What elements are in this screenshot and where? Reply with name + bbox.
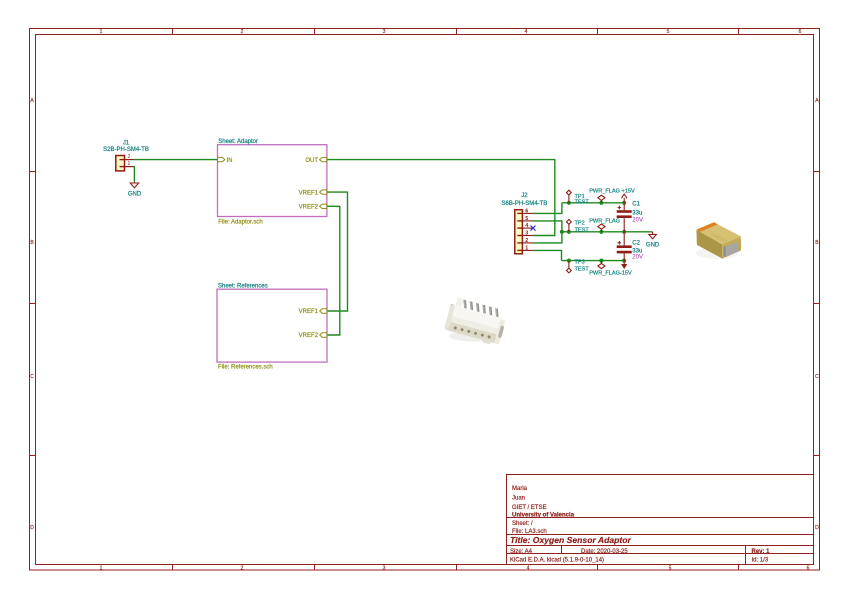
svg-text:KiCad E.D.A. kicad (5.1.9-0-1: KiCad E.D.A. kicad (5.1.9-0-10_14) — [510, 557, 604, 563]
svg-text:Id: 1/3: Id: 1/3 — [752, 557, 769, 563]
svg-text:20V: 20V — [632, 217, 643, 223]
svg-text:4: 4 — [525, 29, 528, 35]
svg-text:GND: GND — [646, 242, 660, 248]
svg-text:C: C — [815, 374, 819, 380]
svg-text:VREF2: VREF2 — [299, 205, 319, 211]
svg-text:2: 2 — [128, 154, 131, 160]
svg-text:TP2: TP2 — [575, 221, 585, 227]
svg-text:GND: GND — [128, 192, 142, 198]
svg-text:6: 6 — [799, 29, 802, 35]
svg-text:C1: C1 — [632, 202, 640, 208]
svg-text:PWR_FLAG-15V: PWR_FLAG-15V — [589, 271, 632, 277]
svg-text:B: B — [815, 240, 819, 246]
svg-text:Size: A4: Size: A4 — [510, 549, 533, 555]
svg-text:D: D — [30, 525, 34, 531]
svg-text:1: 1 — [128, 161, 131, 167]
svg-text:33u: 33u — [632, 211, 642, 217]
svg-text:J1: J1 — [123, 140, 130, 146]
svg-text:TEST: TEST — [575, 266, 590, 272]
svg-text:3: 3 — [525, 231, 528, 237]
svg-text:File: LA3.sch: File: LA3.sch — [512, 529, 547, 535]
svg-text:GIET / ETSE: GIET / ETSE — [512, 505, 547, 511]
svg-text:TP3: TP3 — [575, 260, 585, 266]
svg-text:J2: J2 — [521, 193, 528, 199]
svg-text:1: 1 — [100, 29, 103, 35]
svg-text:Maria: Maria — [512, 486, 528, 492]
svg-text:6: 6 — [807, 565, 810, 571]
svg-text:5: 5 — [667, 29, 670, 35]
svg-text:VREF1: VREF1 — [299, 309, 319, 315]
svg-text:Title: Oxygen Sensor Adaptor: Title: Oxygen Sensor Adaptor — [510, 535, 631, 545]
svg-text:S2B-PH-SM4-TB: S2B-PH-SM4-TB — [103, 147, 149, 153]
svg-text:3: 3 — [383, 565, 386, 571]
svg-text:Date: 2020-03-25: Date: 2020-03-25 — [581, 549, 628, 555]
svg-text:6: 6 — [525, 208, 528, 214]
svg-text:PWR_FLAG: PWR_FLAG — [589, 218, 620, 224]
svg-text:2: 2 — [525, 238, 528, 244]
svg-text:4: 4 — [525, 223, 528, 229]
svg-text:File: Adaptor.sch: File: Adaptor.sch — [218, 220, 262, 226]
svg-text:C2: C2 — [632, 241, 640, 247]
svg-text:S6B-PH-SM4-TB: S6B-PH-SM4-TB — [502, 201, 548, 207]
svg-text:VREF1: VREF1 — [299, 190, 319, 196]
svg-text:Sheet: References: Sheet: References — [218, 284, 268, 290]
svg-text:5: 5 — [669, 565, 672, 571]
svg-text:File: References.sch: File: References.sch — [218, 365, 273, 371]
svg-text:B: B — [30, 240, 34, 246]
svg-text:Rev: 1: Rev: 1 — [752, 549, 771, 555]
svg-text:D: D — [815, 525, 819, 531]
svg-text:5: 5 — [525, 216, 528, 222]
svg-text:PWR_FLAG +15V: PWR_FLAG +15V — [589, 188, 635, 194]
svg-text:4: 4 — [527, 565, 530, 571]
svg-text:C: C — [30, 374, 34, 380]
svg-text:1: 1 — [525, 245, 528, 251]
svg-text:20V: 20V — [632, 254, 643, 260]
svg-text:1: 1 — [100, 565, 103, 571]
svg-text:2: 2 — [241, 29, 244, 35]
svg-text:OUT: OUT — [305, 158, 318, 164]
svg-text:Juan: Juan — [512, 496, 525, 502]
svg-text:A: A — [815, 98, 819, 104]
svg-text:A: A — [30, 98, 34, 104]
svg-text:University of Valencia: University of Valencia — [512, 512, 575, 518]
svg-text:VREF2: VREF2 — [299, 333, 319, 339]
svg-text:Sheet: /: Sheet: / — [512, 521, 533, 527]
svg-text:3: 3 — [383, 29, 386, 35]
svg-text:2: 2 — [241, 565, 244, 571]
svg-text:TEST: TEST — [575, 199, 590, 205]
svg-text:IN: IN — [227, 158, 233, 164]
svg-text:TEST: TEST — [575, 228, 590, 234]
svg-text:Sheet: Adaptor: Sheet: Adaptor — [218, 139, 258, 145]
